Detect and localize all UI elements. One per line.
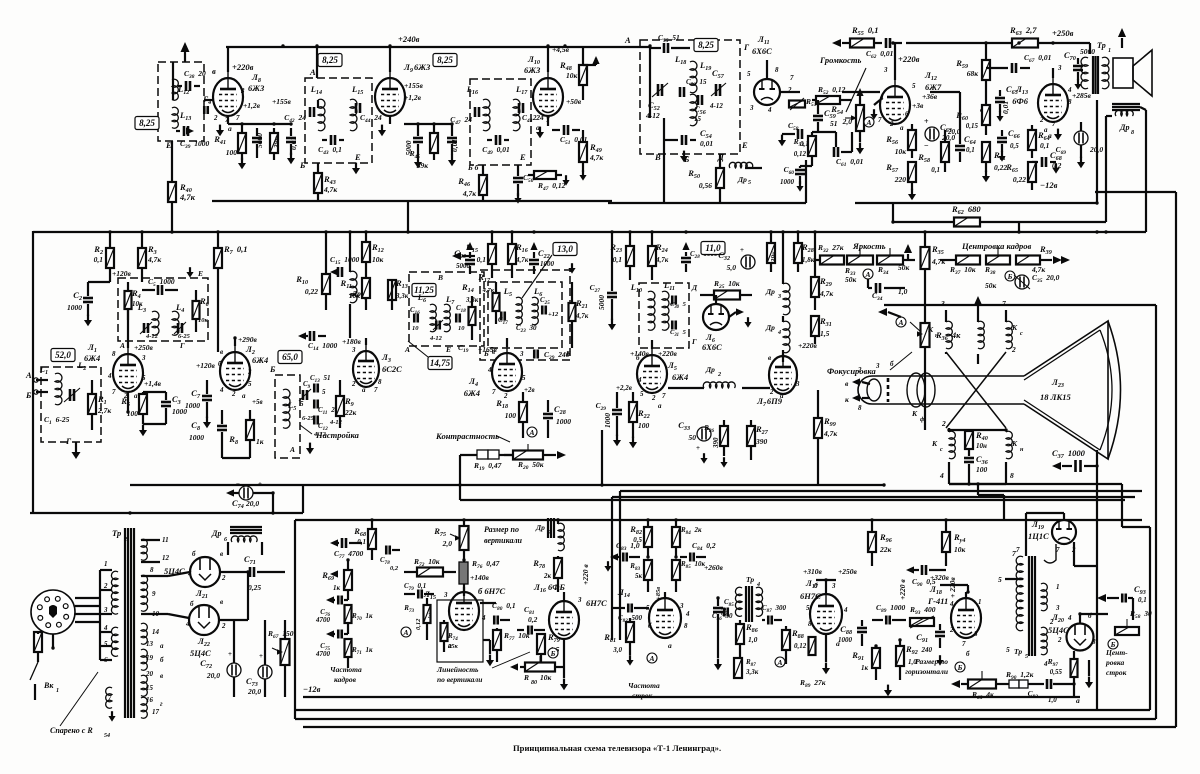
svg-text:4: 4 <box>219 386 224 394</box>
coil L15 <box>350 99 357 131</box>
value box 11,0 <box>701 242 725 255</box>
label R53 0,12 <box>793 137 807 158</box>
label pins Л11 <box>747 66 794 114</box>
resistor R26 <box>720 420 728 456</box>
node arrow l <box>832 39 841 47</box>
label C6 6-25 <box>178 333 191 340</box>
label R34 50к <box>877 263 910 276</box>
label R37 10к <box>949 265 976 276</box>
label R54 2,0 <box>830 104 852 126</box>
resistor R89v <box>809 637 816 655</box>
label +1,2в <box>243 101 261 110</box>
svg-text:Размер по: Размер по <box>915 657 948 666</box>
capacitor C50 <box>513 165 523 196</box>
resistor R5 <box>139 392 147 424</box>
label -12в <box>303 684 321 694</box>
label +320в <box>930 573 950 582</box>
shield box IF2 outer <box>480 270 570 360</box>
resistor R24 <box>648 231 656 280</box>
crt neck <box>858 376 1024 404</box>
label C35 20,0 <box>1032 273 1060 284</box>
label Г4 <box>202 94 211 106</box>
svg-text:20,0: 20,0 <box>947 128 961 136</box>
label L18 <box>674 54 686 66</box>
coil L11 <box>662 291 669 330</box>
shield box L1/L2 <box>41 367 101 442</box>
capacitor C5 <box>142 285 178 295</box>
node A hs2 <box>775 657 785 667</box>
svg-text:18 ЛК15: 18 ЛК15 <box>1040 392 1071 402</box>
wire amp lower rail <box>855 202 1097 204</box>
crt gun dashes <box>887 378 890 402</box>
wire sound section bottom rail <box>608 202 806 204</box>
wire hsweep box top <box>620 490 1142 492</box>
svg-text:6ЖЗ: 6ЖЗ <box>248 83 265 93</box>
resistor R51 <box>789 98 805 110</box>
label C12 <box>313 422 328 438</box>
label R77 10к <box>503 631 530 642</box>
ground speaker <box>1118 28 1126 48</box>
svg-text:Б: Б <box>957 663 963 672</box>
label C48 24 <box>522 113 544 124</box>
label C76 4700 <box>315 608 331 624</box>
resistor R62 <box>893 203 980 227</box>
label R69 1к <box>321 570 340 592</box>
capacitor C89 <box>872 616 906 625</box>
label C90 0,5 <box>912 577 936 588</box>
svg-text:3: 3 <box>103 606 108 614</box>
svg-text:5: 5 <box>1025 654 1028 660</box>
svg-text:+: + <box>258 480 262 488</box>
tube Л9 <box>375 47 405 116</box>
wire R50 drop <box>663 118 665 203</box>
capacitor C59 <box>813 100 823 132</box>
ground R54 <box>856 88 864 154</box>
resistor R98 <box>814 390 822 485</box>
resistor R29 <box>811 231 819 310</box>
transformer Тр2 core <box>125 528 134 718</box>
svg-text:6Ж7: 6Ж7 <box>925 82 942 92</box>
ground C41 <box>287 153 295 165</box>
svg-text:б: б <box>636 354 640 362</box>
resistor R37 <box>940 256 980 265</box>
resistor R13 <box>388 280 396 310</box>
coil L5b <box>516 297 522 325</box>
svg-text:4-12: 4-12 <box>709 102 723 110</box>
svg-text:4: 4 <box>1067 614 1072 622</box>
resistor R90h <box>996 680 1044 688</box>
resistor R81 <box>626 618 634 655</box>
label Кн br <box>1010 439 1024 480</box>
label Л21 <box>195 588 208 600</box>
label R79 1,5 <box>547 632 560 654</box>
wire Л8 grid <box>204 99 213 101</box>
capacitor C6 <box>174 322 186 334</box>
label R10 0,22 <box>295 274 318 296</box>
capacitor C70 <box>1073 58 1083 80</box>
svg-text:Др: Др <box>211 529 221 538</box>
wire top section bottom rail <box>212 200 612 202</box>
svg-text:39к: 39к <box>416 161 429 170</box>
label +220в vs <box>581 564 590 585</box>
svg-text:+: + <box>696 444 700 452</box>
ground C65 <box>996 111 1003 121</box>
label Др2 <box>705 365 721 378</box>
svg-text:Тр: Тр <box>746 575 754 584</box>
resistor R92 <box>896 640 904 680</box>
label +50в <box>566 97 582 106</box>
label Настройка <box>300 425 360 440</box>
svg-text:1000: 1000 <box>556 417 571 426</box>
resistor R59 <box>982 60 990 95</box>
svg-text:10к: 10к <box>566 71 578 80</box>
wire hsweep box top2 <box>612 496 1135 498</box>
svg-text:8: 8 <box>378 378 382 386</box>
svg-text:0,12: 0,12 <box>794 642 807 650</box>
label R26 39к <box>770 251 778 263</box>
label L11 <box>663 280 675 292</box>
svg-text:0,5: 0,5 <box>633 536 642 544</box>
svg-text:К: К <box>931 439 938 448</box>
svg-text:0,12: 0,12 <box>415 618 422 630</box>
capacitor C31 <box>672 321 676 330</box>
svg-text:3: 3 <box>141 354 146 362</box>
label C27 5000 <box>590 283 606 310</box>
resistor R16 <box>508 231 516 278</box>
label C77 4700 <box>334 549 364 560</box>
ground Л9 <box>378 125 386 137</box>
label R45 39к <box>409 149 429 170</box>
svg-text:4,7к: 4,7к <box>515 256 529 264</box>
resistor R7 <box>214 231 222 352</box>
svg-text:20: 20 <box>145 670 154 678</box>
label +220в <box>232 62 254 72</box>
label C17b <box>498 316 508 326</box>
label Л3 6С2С <box>381 352 402 374</box>
wire Л17 plate up <box>816 580 836 588</box>
svg-text:5: 5 <box>300 400 304 408</box>
svg-text:8: 8 <box>1131 130 1134 136</box>
wire main bus right <box>1019 231 1146 233</box>
label R80 10к <box>523 673 552 686</box>
label C19 <box>458 343 469 354</box>
capacitor C88 <box>857 620 867 646</box>
resistor R88 <box>782 626 790 664</box>
tube Л4 <box>492 338 522 391</box>
label +285в <box>1072 91 1092 100</box>
svg-text:В: В <box>437 273 443 282</box>
wire 14,75 link <box>408 341 428 357</box>
resistor R1 <box>88 380 96 430</box>
svg-text:100: 100 <box>226 148 238 157</box>
svg-text:с: с <box>1020 331 1023 337</box>
wire sound section right edge <box>805 160 807 203</box>
svg-text:1к: 1к <box>861 664 869 672</box>
label C89 1000 <box>876 603 906 614</box>
wire amp rail riser <box>1096 100 1098 203</box>
svg-text:а: а <box>536 123 540 132</box>
label L6b <box>533 286 543 298</box>
choke Др1 <box>350 231 357 338</box>
capacitor C78 <box>386 546 400 555</box>
svg-text:1000: 1000 <box>67 303 82 312</box>
node A br <box>863 269 873 279</box>
shield box L5 <box>275 375 300 458</box>
capacitor C52 <box>652 83 668 97</box>
svg-text:+1,2в: +1,2в <box>243 101 261 110</box>
resistor R76 hatched <box>459 562 468 596</box>
label R74 25к <box>447 632 459 650</box>
svg-text:0,1: 0,1 <box>477 255 486 264</box>
label +220в r <box>798 341 818 350</box>
svg-text:5000: 5000 <box>456 262 471 270</box>
label R13 3,3к <box>395 278 409 300</box>
wire crt yoke rail drop <box>1122 484 1150 710</box>
wire right border inner <box>884 305 1156 719</box>
capacitor C28 <box>681 242 691 272</box>
wire sound top <box>563 47 650 118</box>
svg-text:4,7к: 4,7к <box>589 153 603 162</box>
coil L14 <box>318 99 325 131</box>
svg-text:+: + <box>259 652 263 660</box>
label C24 1000 <box>596 401 612 428</box>
label R24 4,7к <box>655 242 669 264</box>
svg-text:51: 51 <box>830 119 838 128</box>
ground R57 <box>908 189 916 201</box>
svg-text:5: 5 <box>747 70 751 78</box>
label +120в <box>112 269 132 278</box>
label +250в t <box>1052 28 1090 54</box>
wire volume line <box>846 68 866 112</box>
ground C68p <box>1050 162 1060 174</box>
label R2 0,1 <box>93 244 103 264</box>
label R29 4,7к <box>819 276 833 298</box>
shield box IF 11,25 <box>409 272 484 346</box>
svg-text:+120в: +120в <box>196 361 216 370</box>
svg-text:Принципиальная схема телевизор: Принципиальная схема телевизора «Т-1 Лен… <box>513 743 721 753</box>
label C54 0,01 <box>700 128 713 148</box>
label C25 +12 <box>540 296 559 318</box>
label C40 5000 <box>255 133 264 148</box>
label R67 150 <box>267 629 294 640</box>
socket <box>31 590 75 634</box>
svg-text:52,0: 52,0 <box>55 350 71 360</box>
transformer Тр2 primary <box>111 571 118 656</box>
svg-text:строк: строк <box>632 691 653 700</box>
value box 11,25 <box>412 284 436 297</box>
label C44 24 <box>360 113 382 124</box>
svg-text:2: 2 <box>503 392 508 400</box>
wire R62 riser <box>1106 116 1112 222</box>
label Тр1 <box>1097 41 1111 54</box>
svg-text:R: R <box>523 673 529 682</box>
resistor R79 <box>537 634 545 664</box>
svg-text:20,0: 20,0 <box>245 499 259 508</box>
label Е b3 <box>519 152 526 162</box>
svg-text:4,7к: 4,7к <box>575 312 589 320</box>
resistor R10 <box>322 231 330 310</box>
svg-text:Г: Г <box>743 42 750 52</box>
wire bottom box left <box>294 520 296 719</box>
tube Л17 <box>810 588 842 634</box>
svg-text:ф: ф <box>920 416 925 423</box>
label C64 0,1 <box>964 134 976 154</box>
label C51 0,01 <box>560 135 587 146</box>
label 5 tr5 <box>998 575 1002 584</box>
label C37 1000 <box>1052 448 1086 460</box>
box Л15 cath <box>437 600 483 662</box>
svg-text:а: а <box>900 124 904 132</box>
svg-text:+140в: +140в <box>470 573 490 582</box>
resistor R84 <box>672 520 680 557</box>
svg-text:А: А <box>624 35 631 45</box>
svg-text:3,0: 3,0 <box>612 646 622 654</box>
label R12 10к <box>371 242 384 264</box>
ground Л6 <box>744 317 751 327</box>
wire Л8 cathode drop <box>227 116 229 124</box>
svg-text:240: 240 <box>921 646 933 654</box>
label Л10 6ЖЗ <box>524 54 541 75</box>
label L5 <box>287 400 296 412</box>
ground C66 <box>998 151 1005 161</box>
coil L13 <box>172 107 178 128</box>
svg-text:ровка: ровка <box>1105 658 1124 667</box>
svg-text:3: 3 <box>883 66 888 74</box>
svg-text:Размер по: Размер по <box>484 525 519 534</box>
svg-text:+ 220в: + 220в <box>948 577 957 598</box>
resistor R69 <box>344 560 352 600</box>
label 6Н7С hs <box>586 598 607 608</box>
svg-text:в: в <box>220 348 223 356</box>
label Е ifb <box>445 345 451 354</box>
svg-text:6ЖЗ: 6ЖЗ <box>414 62 431 72</box>
label 20,0b <box>947 128 961 136</box>
label R59 68к <box>955 58 978 78</box>
label Д snd <box>717 152 725 162</box>
wire Л8 plate link <box>316 47 318 78</box>
capacitor C80 <box>480 603 510 625</box>
label R91 1к <box>851 650 868 672</box>
labels 11 12 <box>150 536 170 574</box>
svg-text:а: а <box>134 392 138 400</box>
coil L4 <box>172 311 179 335</box>
label А <box>309 67 316 77</box>
capacitor C1 <box>64 388 80 402</box>
label L13 <box>179 110 191 122</box>
svg-text:4: 4 <box>637 376 642 384</box>
capacitor C44 <box>356 103 360 113</box>
svg-text:1: 1 <box>1108 48 1111 54</box>
tube Л20 <box>1067 614 1094 651</box>
label R89 27к <box>799 678 826 689</box>
svg-text:1: 1 <box>978 598 982 606</box>
capacitor C4 <box>140 322 152 334</box>
svg-text:6Х6С: 6Х6С <box>702 342 722 352</box>
label Кф <box>911 409 925 423</box>
capacitor C20 <box>465 242 475 274</box>
label Е if2 <box>565 349 571 358</box>
resistor R3 <box>138 231 146 282</box>
label а л20 <box>1076 696 1080 705</box>
label -12в <box>1040 180 1058 190</box>
resistor R39 <box>1016 256 1040 265</box>
capacitor C48 <box>487 135 509 145</box>
resistor R91 <box>872 646 880 680</box>
wire feedback line R62 <box>893 221 1106 223</box>
label Е <box>165 140 172 150</box>
resistor R9 <box>336 380 344 428</box>
svg-text:1: 1 <box>1056 583 1060 591</box>
svg-text:а: а <box>780 392 784 400</box>
svg-text:1000: 1000 <box>838 636 853 644</box>
svg-text:1,0: 1,0 <box>1048 696 1057 704</box>
resistor R64 <box>1028 125 1036 158</box>
label Л8 6ЖЗ <box>248 72 265 93</box>
label R85 10к <box>680 560 705 570</box>
coil L12 <box>172 79 178 100</box>
yoke coil bot right Кн <box>1006 431 1012 484</box>
label R36 4к <box>935 330 961 342</box>
label R98 4,7к <box>823 416 837 438</box>
wire Л19 fil <box>1044 542 1096 566</box>
wire R46 drop <box>482 165 484 201</box>
wire Л9 rc bus <box>404 123 452 125</box>
resistor R17 <box>493 282 500 324</box>
label Л16 6ФБ <box>533 582 565 594</box>
svg-text:3: 3 <box>519 350 524 358</box>
resistor R56 <box>908 124 916 158</box>
svg-text:+220в: +220в <box>798 341 818 350</box>
svg-text:Контрастность: Контрастность <box>435 431 499 441</box>
svg-text:8: 8 <box>150 566 154 574</box>
svg-text:4-12: 4-12 <box>429 335 443 342</box>
label Громкость <box>819 55 862 65</box>
capacitor C15 <box>330 267 342 277</box>
svg-text:0,15: 0,15 <box>966 122 979 130</box>
ecap C73 <box>258 652 272 679</box>
label R39 4,7к <box>1031 244 1052 274</box>
svg-text:22к: 22к <box>344 408 357 417</box>
shield box IF1 <box>118 278 208 341</box>
coil L5 <box>283 389 290 428</box>
label R84 2к <box>680 526 702 536</box>
transformer Тр2 sec mid <box>141 575 168 614</box>
svg-text:4700: 4700 <box>315 616 331 624</box>
label R6 10к <box>198 296 210 324</box>
svg-text:0,1: 0,1 <box>613 255 622 264</box>
svg-text:Др: Др <box>765 323 775 332</box>
svg-text:6Н7С: 6Н7С <box>800 591 821 601</box>
wire top B+ bus <box>226 46 563 48</box>
label C93 0,1 <box>1134 584 1147 604</box>
svg-text:0,1: 0,1 <box>94 255 103 264</box>
label 6Н7С vs <box>478 586 505 596</box>
capacitor C93 <box>1097 594 1133 603</box>
svg-text:1: 1 <box>104 560 108 568</box>
tube Л14 <box>649 592 681 638</box>
svg-text:4: 4 <box>187 570 192 578</box>
svg-text:а: а <box>160 642 164 650</box>
svg-text:+: + <box>924 117 929 126</box>
svg-text:4: 4 <box>939 471 944 480</box>
svg-text:а: а <box>658 402 662 410</box>
resistor R72 <box>404 568 456 577</box>
svg-text:+285в: +285в <box>1072 91 1092 100</box>
label R57 220 <box>885 162 906 184</box>
label Б if2 <box>483 349 489 358</box>
capacitor C57s <box>711 83 726 96</box>
svg-text:г: г <box>160 700 163 708</box>
